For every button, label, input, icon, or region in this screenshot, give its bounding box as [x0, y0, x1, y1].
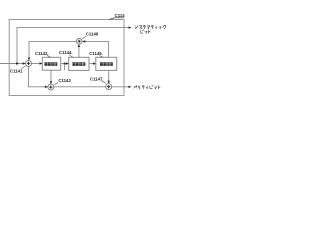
svg-text:C1146: C1146: [86, 32, 99, 37]
svg-text:C114: C114: [115, 13, 126, 18]
svg-text:C1145.: C1145.: [89, 51, 103, 56]
svg-text:C1143: C1143: [58, 78, 71, 83]
svg-text:C1141: C1141: [10, 68, 23, 73]
svg-text:C1142.: C1142.: [35, 51, 49, 56]
svg-text:C1144.: C1144.: [59, 50, 73, 55]
